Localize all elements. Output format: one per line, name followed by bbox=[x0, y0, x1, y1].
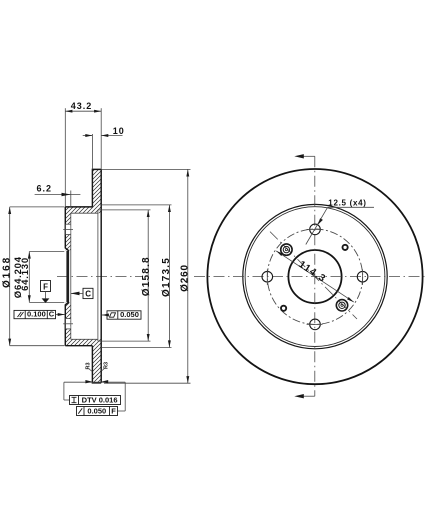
bolt hole bottom bbox=[307, 319, 323, 330]
small hole lower left bbox=[281, 306, 286, 311]
svg-text:6.2: 6.2 bbox=[37, 183, 53, 193]
center bore circle bbox=[288, 250, 341, 303]
wire: section centerline bbox=[57, 276, 143, 278]
dimension dia 260 bbox=[101, 169, 190, 383]
section arrow bottom bbox=[294, 394, 315, 398]
disc right face line bbox=[100, 169, 102, 383]
svg-text:0.100: 0.100 bbox=[27, 310, 46, 319]
bolt hole gap in plate bottom bbox=[63, 319, 73, 329]
svg-text:F: F bbox=[43, 282, 48, 291]
svg-text:F: F bbox=[111, 407, 116, 416]
svg-text:Ø260: Ø260 bbox=[180, 264, 191, 292]
surface line dia 158.8 bbox=[97, 210, 99, 341]
feature control frame DTV 0.016 bbox=[70, 396, 121, 405]
dimension dia 158.8 bbox=[98, 210, 152, 341]
dimension dia 173.5 bbox=[101, 205, 172, 348]
svg-text:Ø173.5: Ø173.5 bbox=[161, 257, 172, 297]
svg-text:DTV 0.016: DTV 0.016 bbox=[82, 396, 118, 405]
vertical centerline bbox=[314, 156, 316, 396]
front view outer circle bbox=[207, 169, 422, 384]
bolt hole top bbox=[307, 224, 323, 235]
fillet label R3 left bbox=[86, 362, 93, 371]
countersunk hole lower right bbox=[336, 300, 347, 311]
svg-text:43.2: 43.2 bbox=[71, 101, 93, 111]
svg-text:0.050: 0.050 bbox=[120, 310, 139, 319]
small hole upper right bbox=[343, 245, 348, 250]
bolt hole left bbox=[262, 270, 273, 285]
dimension 114.3 bolt circle bbox=[276, 251, 354, 302]
feature control frame flatness 0.050 bbox=[102, 310, 141, 319]
DTV bracket and thickness arrows bbox=[64, 380, 125, 411]
hat outer diameter circle 168 bbox=[245, 207, 385, 347]
svg-text:C: C bbox=[85, 289, 91, 298]
svg-text:Ø168: Ø168 bbox=[2, 256, 13, 288]
section arrow top bbox=[294, 154, 315, 158]
svg-text:R3: R3 bbox=[86, 362, 92, 369]
svg-text:R3: R3 bbox=[104, 362, 110, 369]
center bore dark band bbox=[66, 213, 70, 339]
dimension 12.5 x4 leader bbox=[306, 199, 374, 245]
dimension dia 168 bbox=[2, 207, 65, 346]
diagonal centerline bbox=[270, 232, 357, 319]
hub plate lower section bbox=[65, 302, 101, 346]
friction ring section top bar bbox=[92, 169, 101, 207]
datum F bbox=[41, 281, 51, 304]
horizontal centerline bbox=[194, 276, 428, 278]
bolt circle bbox=[267, 229, 362, 324]
datum C bbox=[71, 288, 94, 298]
dimension dia 64.204 64.130 bbox=[13, 252, 65, 303]
svg-text:C: C bbox=[49, 310, 55, 319]
feature control frame parallelism 0.100 C bbox=[14, 310, 65, 319]
bolt hole right bbox=[357, 270, 368, 285]
fillet label R3 right bbox=[101, 362, 109, 371]
dimension 43.2 bbox=[65, 101, 101, 207]
svg-text:114.3: 114.3 bbox=[296, 259, 327, 285]
svg-text:Ø158.8: Ø158.8 bbox=[141, 256, 152, 296]
hub plate upper section bbox=[65, 207, 69, 251]
svg-text:12.5 (x4): 12.5 (x4) bbox=[328, 199, 366, 208]
countersunk hole upper left bbox=[281, 244, 292, 255]
svg-text:0.050: 0.050 bbox=[87, 407, 106, 416]
svg-text:10: 10 bbox=[113, 126, 125, 136]
friction inner diameter circle 173.5 bbox=[243, 204, 387, 348]
bolt hole gap in plate top bbox=[63, 224, 73, 234]
friction ring section bottom bar bbox=[92, 346, 101, 383]
feature control frame runout 0.050 F bbox=[77, 407, 118, 416]
svg-text:64.130: 64.130 bbox=[20, 257, 31, 291]
dimension 6.2 bbox=[35, 183, 81, 207]
dimension 10 bbox=[83, 126, 125, 169]
hat cylinder wall top bbox=[65, 207, 101, 250]
